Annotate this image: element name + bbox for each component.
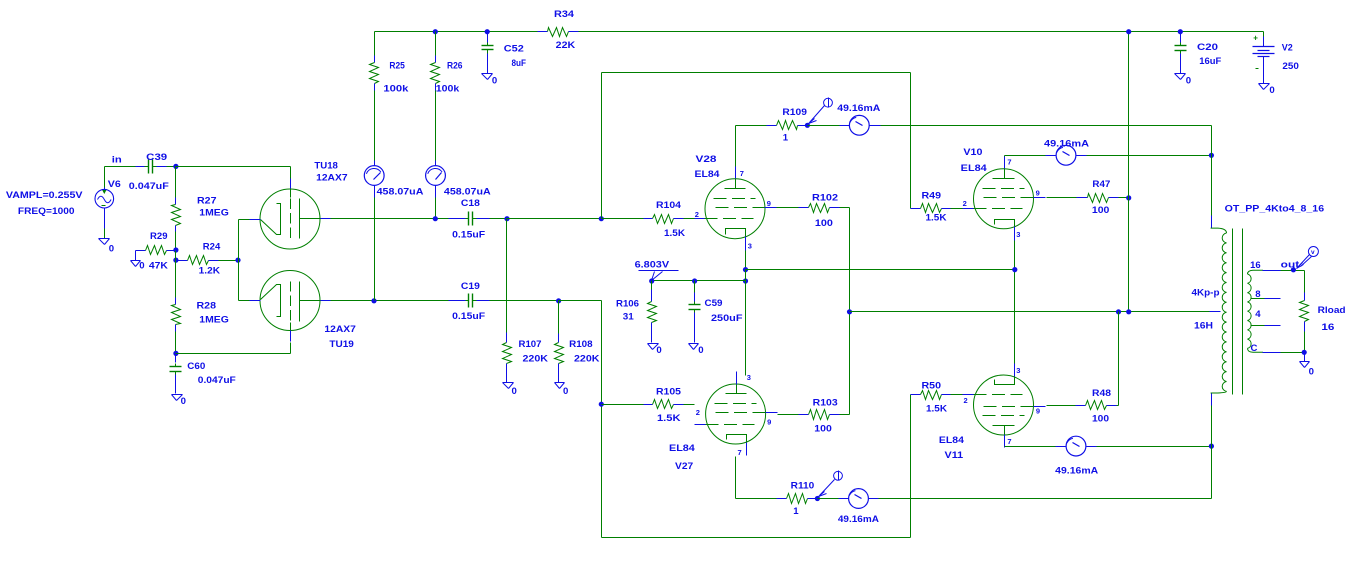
V10 pin 9 label: [1036, 188, 1040, 197]
C39 ref label: [146, 152, 167, 163]
V28 pin 9 label: [767, 199, 771, 208]
svg-text:C18: C18: [461, 198, 481, 209]
svg-text:in: in: [112, 154, 122, 165]
V10 type label: [961, 163, 988, 174]
pentode V28 EL84: [695, 167, 777, 251]
wire V11 grid riser: [910, 395, 912, 538]
ground V6: [99, 239, 110, 245]
node R106 top junction: [649, 278, 654, 283]
svg-text:V6: V6: [108, 179, 121, 190]
C19 value label: [452, 311, 485, 322]
capacitor C52: [482, 32, 494, 74]
node R109 meter junction: [805, 123, 810, 128]
ground Rload 0 label: [1309, 367, 1314, 378]
resistor R109: [767, 121, 808, 130]
transformer value 4Kp-p label: [1192, 288, 1220, 299]
svg-text:3: 3: [748, 241, 752, 250]
capacitor C18: [449, 212, 490, 226]
IPROBE1 reading label: [377, 187, 424, 198]
svg-text:220K: 220K: [523, 353, 549, 364]
resistor R108: [555, 334, 564, 383]
svg-text:0: 0: [1269, 85, 1274, 96]
svg-text:250uF: 250uF: [711, 313, 743, 324]
V27 type label: [669, 443, 696, 454]
svg-text:0: 0: [492, 75, 497, 86]
wire B+ riser: [1128, 32, 1130, 312]
svg-text:R27: R27: [197, 196, 217, 207]
node anode rail junction bottom: [1209, 444, 1214, 449]
svg-text:2: 2: [963, 199, 967, 208]
svg-text:Rload: Rload: [1318, 305, 1346, 316]
wire cathode rail right: [746, 269, 1015, 271]
TU18 type label: [316, 172, 348, 183]
wire TU18 cathode: [239, 219, 251, 221]
svg-text:R34: R34: [554, 9, 575, 20]
wire meter1 to TU19 plate: [374, 186, 376, 301]
transformer tap C label: [1251, 343, 1258, 354]
viewpoint pointer: [652, 272, 663, 281]
R48 value label: [1092, 413, 1109, 424]
wire R48 riser: [1118, 312, 1120, 406]
svg-text:2: 2: [696, 408, 700, 417]
svg-text:7: 7: [740, 169, 744, 178]
wire R27 to node A: [175, 232, 177, 251]
svg-text:V11: V11: [945, 450, 964, 461]
capacitor C60: [170, 354, 182, 394]
R28 value label: [199, 314, 229, 325]
ground R106 0 label: [656, 345, 661, 356]
triode TU18 12AX7: [250, 179, 331, 250]
marker R110 reading label: [838, 514, 879, 525]
resistor R110: [777, 494, 818, 504]
triode TU19 12AX7: [250, 271, 331, 342]
wire R25 to meter: [374, 91, 376, 166]
svg-text:R28: R28: [197, 300, 217, 311]
transformer ref label: [1225, 203, 1325, 214]
svg-text:R110: R110: [791, 481, 815, 492]
resistor R49: [911, 204, 963, 213]
node R110 meter junction: [815, 496, 820, 501]
V11 pin 7 label: [1007, 437, 1011, 446]
TU19 ref label: [329, 339, 354, 350]
svg-text:9: 9: [1036, 188, 1040, 197]
resistor R34: [538, 28, 579, 37]
wire node A to R28: [175, 261, 177, 298]
R108 ref label: [569, 339, 593, 350]
svg-text:R102: R102: [812, 192, 838, 203]
V28 ref label: [696, 154, 718, 165]
node TU19 plate meter junction: [371, 298, 376, 303]
capacitor C39: [136, 160, 167, 174]
svg-text:R24: R24: [203, 242, 221, 253]
viewpoint 6.803V label: [635, 259, 670, 270]
R105 ref label: [656, 387, 682, 398]
ground R29 0 label: [139, 261, 144, 272]
svg-text:EL84: EL84: [961, 163, 988, 174]
pentode V11 EL84: [963, 364, 1046, 448]
R103 ref label: [813, 397, 838, 408]
svg-text:49.16mA: 49.16mA: [1055, 466, 1098, 477]
resistor R29: [136, 246, 176, 255]
node R107 top junction: [504, 216, 509, 221]
svg-text:458.07uA: 458.07uA: [444, 187, 491, 198]
svg-text:0: 0: [139, 261, 144, 272]
svg-text:1.5K: 1.5K: [926, 403, 947, 414]
pentode V27 EL84: [695, 372, 778, 456]
node B+ screen junction: [1126, 309, 1131, 314]
svg-text:49.16mA: 49.16mA: [838, 514, 879, 525]
svg-text:R48: R48: [1092, 388, 1112, 399]
voltage source V6 label VAMPL: [6, 190, 83, 201]
node bias node junction: [743, 278, 748, 283]
voltage source V6: [95, 188, 114, 229]
svg-text:2: 2: [695, 210, 699, 219]
ground C59 0 label: [698, 345, 703, 356]
wire grid node to TU19: [176, 353, 291, 355]
svg-text:3: 3: [1016, 366, 1020, 375]
ground R108 0 label: [563, 386, 568, 397]
wire out corner down: [1304, 271, 1306, 293]
R34 value label: [556, 40, 576, 51]
wire cathode segment: [745, 270, 747, 281]
resistor R103: [778, 410, 850, 420]
svg-text:V28: V28: [696, 154, 718, 165]
ground C52: [482, 74, 493, 80]
wire top bus left: [375, 31, 538, 33]
C19 ref label: [461, 281, 480, 292]
wire R107 riser: [506, 219, 508, 333]
V28 pin 3 label: [748, 241, 752, 250]
wire V28 grid riser: [601, 73, 603, 219]
R48 ref label: [1092, 388, 1112, 399]
svg-text:49.16mA: 49.16mA: [837, 103, 880, 114]
node R29 junction: [173, 247, 178, 252]
svg-text:C39: C39: [146, 152, 167, 163]
R50 ref label: [922, 380, 942, 391]
ground C60: [172, 395, 183, 401]
R108 value label: [574, 353, 600, 364]
svg-text:EL84: EL84: [669, 443, 696, 454]
wire tap C to ground node: [1263, 352, 1305, 354]
V28 type label: [695, 169, 721, 180]
ammeter IPROBE5: [1056, 145, 1076, 165]
wire TU19 cathode: [239, 300, 251, 302]
svg-text:6.803V: 6.803V: [635, 259, 670, 270]
svg-text:+: +: [1253, 34, 1258, 43]
R47 value label: [1092, 205, 1110, 216]
svg-text:1: 1: [783, 133, 789, 144]
wire cathode link: [238, 220, 240, 301]
R27 ref label: [197, 196, 217, 207]
IPROBE6 reading label: [1055, 466, 1098, 477]
wire grid rail bottom: [602, 537, 911, 539]
Rload value label: [1321, 322, 1334, 333]
svg-text:1.2K: 1.2K: [199, 265, 220, 276]
wire C39 to junction: [167, 166, 176, 168]
R104 value label: [664, 228, 685, 239]
wire C19 node to corner: [559, 300, 602, 302]
R104 ref label: [656, 200, 682, 211]
R49 ref label: [922, 190, 942, 201]
V27 pin 7 label: [738, 448, 742, 457]
svg-text:R105: R105: [656, 387, 682, 398]
svg-text:EL84: EL84: [695, 169, 721, 180]
V27 pin 3 label: [747, 373, 751, 382]
wire V6 to ground: [104, 229, 106, 239]
node C52 top junction: [485, 29, 490, 34]
svg-text:C59: C59: [705, 298, 723, 309]
transformer core: [1233, 229, 1243, 395]
resistor Rload: [1300, 293, 1309, 353]
svg-text:0: 0: [698, 345, 703, 356]
node cathode rail right junction: [1012, 267, 1017, 272]
current marker R109: [809, 98, 833, 124]
ground C59: [689, 344, 699, 350]
V10 pin 2 label: [963, 199, 967, 208]
ammeter IPROBE3: [849, 115, 869, 135]
svg-text:R49: R49: [922, 190, 942, 201]
svg-text:7: 7: [1007, 158, 1011, 167]
svg-text:220K: 220K: [574, 353, 600, 364]
V11 pin 2 label: [964, 396, 968, 405]
svg-text:12AX7: 12AX7: [316, 172, 348, 183]
resistor R27: [172, 198, 181, 232]
resistor R106: [648, 281, 657, 343]
ground C20: [1175, 74, 1186, 80]
node cathode rail junction: [743, 267, 748, 272]
svg-text:V10: V10: [963, 147, 982, 158]
R47 ref label: [1092, 179, 1110, 190]
V10 pin 7 label: [1007, 158, 1011, 167]
R24 value label: [199, 265, 220, 276]
wire bias rail left: [652, 280, 746, 282]
resistor R107: [503, 333, 512, 383]
resistor R48: [1047, 401, 1119, 410]
R26 ref label: [447, 60, 463, 71]
marker R109 reading label: [837, 103, 880, 114]
svg-text:C20: C20: [1197, 42, 1218, 53]
C60 value label: [198, 375, 236, 386]
ammeter IPROBE2: [426, 166, 446, 186]
wire in node horizontal: [105, 166, 136, 168]
R27 value label: [199, 207, 229, 218]
svg-text:0.047uF: 0.047uF: [129, 181, 169, 192]
wire node A segment: [175, 251, 177, 261]
V2 value label: [1282, 61, 1299, 72]
R107 value label: [523, 353, 549, 364]
node R108 top junction: [556, 298, 561, 303]
svg-text:R26: R26: [447, 60, 463, 71]
R109 value label: [783, 133, 789, 144]
svg-text:31: 31: [623, 312, 635, 323]
C18 value label: [452, 230, 485, 241]
V27 pin 2 label: [696, 408, 700, 417]
V27 pin 9 label: [767, 417, 771, 426]
C60 ref label: [187, 361, 205, 372]
wire meter5 to junction: [1077, 155, 1212, 157]
R102 value label: [815, 218, 833, 229]
svg-text:3: 3: [1016, 230, 1020, 239]
ground C20 0 label: [1186, 76, 1191, 87]
node anode rail junction top: [1209, 153, 1214, 158]
svg-text:1MEG: 1MEG: [199, 314, 229, 325]
wire V28 to V27 cathode: [745, 281, 747, 376]
wire R110 line: [736, 498, 777, 500]
node out junction: [1291, 267, 1296, 272]
wire junction down: [175, 167, 177, 198]
resistor R104: [602, 215, 695, 224]
resistor R102: [777, 204, 850, 213]
pentode V10 EL84: [963, 157, 1046, 241]
C20 value label: [1199, 56, 1221, 67]
ground C60 0 label: [181, 396, 186, 407]
svg-text:100: 100: [814, 424, 832, 435]
TU19 type label: [324, 324, 356, 335]
svg-text:458.07uA: 458.07uA: [377, 187, 424, 198]
R110 value label: [793, 506, 799, 517]
node C60 junction: [173, 351, 178, 356]
V11 pin 9 label: [1036, 406, 1040, 415]
R109 ref label: [782, 107, 807, 118]
svg-text:out: out: [1281, 259, 1300, 270]
svg-text:TU19: TU19: [329, 339, 354, 350]
R103 value label: [814, 424, 832, 435]
wire C18 to R107 node: [490, 218, 507, 220]
svg-text:100: 100: [815, 218, 833, 229]
R50 value label: [926, 403, 947, 414]
wire C19 to R108 node: [490, 300, 559, 302]
wire tap 4 stub: [1265, 325, 1281, 327]
transformer tap 4 label: [1255, 309, 1261, 320]
wire V10 anode corner: [1005, 156, 1056, 157]
svg-text:R108: R108: [569, 339, 593, 350]
node screen rail junction: [847, 309, 852, 314]
R110 ref label: [791, 481, 815, 492]
C18 ref label: [461, 198, 481, 209]
node R26 top junction: [433, 29, 438, 34]
resistor R24: [176, 256, 239, 265]
node R24 junction: [173, 258, 178, 263]
transformer tap 16 label: [1250, 260, 1261, 271]
svg-text:8: 8: [1255, 289, 1261, 300]
wire TU18 plate to C18: [331, 218, 449, 220]
svg-text:R104: R104: [656, 200, 682, 211]
svg-text:22K: 22K: [556, 40, 576, 51]
V11 ref label: [945, 450, 964, 461]
R34 ref label: [554, 9, 575, 20]
svg-text:16: 16: [1250, 260, 1261, 271]
out node label: [1281, 259, 1300, 270]
svg-text:0: 0: [1309, 367, 1314, 378]
svg-text:EL84: EL84: [939, 435, 965, 446]
TU18 ref label: [314, 161, 338, 172]
C59 value label: [711, 313, 743, 324]
V6 ref label: [108, 179, 121, 190]
R24 ref label: [203, 242, 221, 253]
ground V6 0 label: [109, 243, 114, 254]
wire TU19 plate to C19: [331, 300, 449, 302]
svg-text:9: 9: [1036, 406, 1040, 415]
svg-text:1: 1: [793, 506, 799, 517]
svg-text:1.5K: 1.5K: [664, 228, 685, 239]
svg-text:16: 16: [1321, 322, 1334, 333]
R49 value label: [926, 212, 947, 223]
wire V10 grid riser: [910, 73, 912, 209]
svg-text:0.047uF: 0.047uF: [198, 375, 236, 386]
node in label: [112, 154, 122, 165]
transformer tap 8 label: [1255, 289, 1261, 300]
ground Rload: [1300, 353, 1310, 368]
wire R109 line: [736, 125, 767, 127]
svg-text:R109: R109: [782, 107, 807, 118]
R28 ref label: [197, 300, 217, 311]
transformer value 16H label: [1194, 321, 1213, 332]
R106 value label: [623, 312, 635, 323]
svg-text:4Kp-p: 4Kp-p: [1192, 288, 1220, 299]
svg-text:12AX7: 12AX7: [324, 324, 356, 335]
svg-text:R106: R106: [616, 299, 639, 310]
node Rload bottom junction: [1302, 350, 1307, 355]
ammeter IPROBE4: [849, 489, 869, 509]
resistor R25: [370, 32, 379, 91]
ammeter IPROBE1: [364, 166, 384, 186]
transformer OT_PP primary: [1211, 228, 1227, 393]
wire top bus right: [579, 31, 1264, 33]
svg-text:0: 0: [1186, 76, 1191, 87]
wire meter6 to junction: [1087, 446, 1212, 448]
ground V2: [1259, 84, 1270, 90]
wire tap 16 out: [1263, 270, 1305, 272]
V10 ref label: [963, 147, 982, 158]
battery V2: [1253, 32, 1275, 84]
R26 value label: [436, 84, 460, 95]
wire input node to TU18 grid: [176, 166, 291, 168]
svg-text:9: 9: [767, 417, 771, 426]
V28 pin 2 label: [695, 210, 699, 219]
R105 value label: [657, 413, 681, 424]
wire anode riser bottom: [1211, 393, 1213, 499]
Rload ref label: [1318, 305, 1346, 316]
node R105 junction: [599, 402, 604, 407]
R107 ref label: [519, 339, 542, 350]
wire TU18 grid riser: [290, 167, 292, 179]
node V28 grid junction: [599, 216, 604, 221]
svg-text:1MEG: 1MEG: [199, 207, 229, 218]
V28 pin 7 label: [740, 169, 744, 178]
ground R29: [131, 251, 141, 267]
svg-text:VAMPL=0.255V: VAMPL=0.255V: [6, 190, 83, 201]
svg-text:1.5K: 1.5K: [657, 413, 681, 424]
wire R26 to meter: [435, 91, 437, 166]
svg-text:FREQ=1000: FREQ=1000: [18, 206, 75, 217]
resistor R26: [431, 32, 440, 91]
R29 ref label: [150, 231, 168, 242]
wire C18 node to riser: [507, 218, 602, 220]
R25 value label: [383, 84, 409, 95]
R102 ref label: [812, 192, 838, 203]
ground R108: [555, 383, 565, 389]
V11 type label: [939, 435, 965, 446]
wire V10 V11 cathode riser: [1014, 241, 1016, 364]
wire meter3 to OT: [870, 125, 1212, 127]
wire V11 anode corner: [1005, 446, 1066, 448]
V27 ref label: [675, 461, 693, 472]
resistor R105: [602, 400, 695, 409]
IPROBE5 reading label: [1044, 139, 1089, 150]
wire anode riser top: [1211, 126, 1213, 229]
R106 ref label: [616, 299, 639, 310]
wire V28 anode riser: [735, 126, 737, 167]
